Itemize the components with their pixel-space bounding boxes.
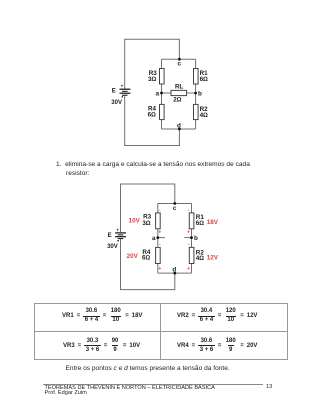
resistor RL 2ohm (circuit 1) (171, 90, 187, 95)
wire bridge right branch (circuit 2) (191, 204, 193, 274)
svg-text:30V: 30V (111, 100, 122, 106)
svg-text:E: E (108, 233, 112, 239)
battery E 30V (circuit 2) (115, 233, 126, 239)
resistor R2 4ohm (circuit 1) (194, 104, 199, 119)
svg-text:+: + (158, 266, 161, 272)
battery minus dot (circuit 2) (117, 240, 119, 242)
svg-text:20V: 20V (127, 253, 139, 260)
svg-text:RL: RL (175, 84, 184, 91)
node c junction dot (circuit 1) (178, 58, 181, 61)
svg-text:-: - (159, 242, 161, 248)
svg-text:d: d (172, 266, 176, 273)
svg-text:4Ω: 4Ω (200, 112, 209, 119)
footer line 1 (45, 385, 215, 391)
instruction paragraph (56, 160, 250, 179)
formula VR3 (63, 332, 140, 360)
node b junction dot (circuit 1) (194, 92, 197, 95)
svg-text:b: b (194, 235, 198, 242)
svg-text:10V: 10V (129, 218, 141, 225)
svg-text:+: + (187, 266, 190, 272)
formula table (34, 303, 288, 360)
wire bridge left branch (circuit 2) (157, 204, 159, 274)
wire battery bottom return to node d (125, 95, 180, 145)
svg-text:6Ω: 6Ω (148, 111, 157, 118)
svg-text:c: c (173, 205, 177, 212)
resistor R4 6ohm (circuit 2) (156, 247, 161, 263)
node d junction dot (circuit 2) (173, 272, 176, 275)
svg-text:3Ω: 3Ω (142, 220, 151, 227)
battery minus dot (circuit 1) (122, 96, 124, 98)
node d junction dot (circuit 1) (178, 128, 181, 131)
node c junction dot (circuit 2) (173, 202, 176, 205)
wire battery top to node c (circuit 2) (121, 184, 175, 232)
svg-text:d: d (177, 123, 181, 130)
svg-text:18V: 18V (207, 219, 219, 226)
svg-text:a: a (152, 235, 156, 242)
formula VR4 (177, 332, 257, 360)
svg-text:6Ω: 6Ω (196, 220, 205, 227)
wire bridge bottom edge (162, 128, 196, 130)
wire bridge right branch (195, 59, 197, 129)
svg-text:a: a (156, 91, 160, 98)
wire stub at node a (circuit 2) (158, 237, 165, 239)
svg-text:2Ω: 2Ω (173, 96, 182, 103)
wire RL branch a to b (162, 92, 196, 94)
resistor R1 6ohm (circuit 2) (189, 213, 194, 229)
svg-text:+: + (187, 230, 190, 236)
resistor R3 3ohm (circuit 1) (160, 69, 165, 85)
resistor R4 6ohm (circuit 1) (160, 104, 165, 119)
wire stub at node b (circuit 2) (184, 237, 191, 239)
svg-text:6Ω: 6Ω (200, 76, 209, 83)
svg-text:4Ω: 4Ω (196, 255, 205, 262)
svg-text:3Ω: 3Ω (148, 76, 157, 83)
formula VR2 (177, 303, 257, 330)
svg-text:b: b (198, 91, 202, 98)
svg-text:-: - (188, 242, 190, 248)
wire bridge left branch (161, 59, 163, 129)
svg-text:12V: 12V (207, 254, 219, 261)
wire battery bottom return to node d (circuit 2) (121, 239, 175, 290)
svg-text:+: + (158, 230, 161, 236)
svg-text:E: E (112, 89, 116, 95)
node b junction dot (circuit 2) (190, 236, 193, 239)
node a junction dot (circuit 1) (160, 92, 163, 95)
resistor R3 3ohm (circuit 2) (156, 213, 161, 229)
svg-text:+: + (121, 84, 124, 89)
svg-text:+: + (116, 227, 119, 232)
footer line 2 (45, 390, 87, 396)
closing sentence (66, 365, 230, 372)
wire bridge bottom edge (circuit 2) (158, 272, 192, 274)
wire battery top to node c (top feed) (125, 39, 180, 88)
svg-text:c: c (178, 61, 182, 68)
footer rule (43, 384, 263, 385)
resistor R2 4ohm (circuit 2) (189, 247, 194, 263)
battery E 30V (circuit 1) (120, 89, 131, 95)
node a junction dot (circuit 2) (156, 236, 159, 239)
formula VR1 (62, 303, 142, 330)
wire bridge top edge (circuit 2) (158, 203, 192, 205)
svg-text:30V: 30V (107, 244, 118, 250)
page number 13 (266, 384, 272, 390)
resistor R1 6ohm (circuit 1) (194, 69, 199, 85)
wire bridge top edge (162, 58, 196, 60)
svg-text:6Ω: 6Ω (142, 255, 151, 262)
